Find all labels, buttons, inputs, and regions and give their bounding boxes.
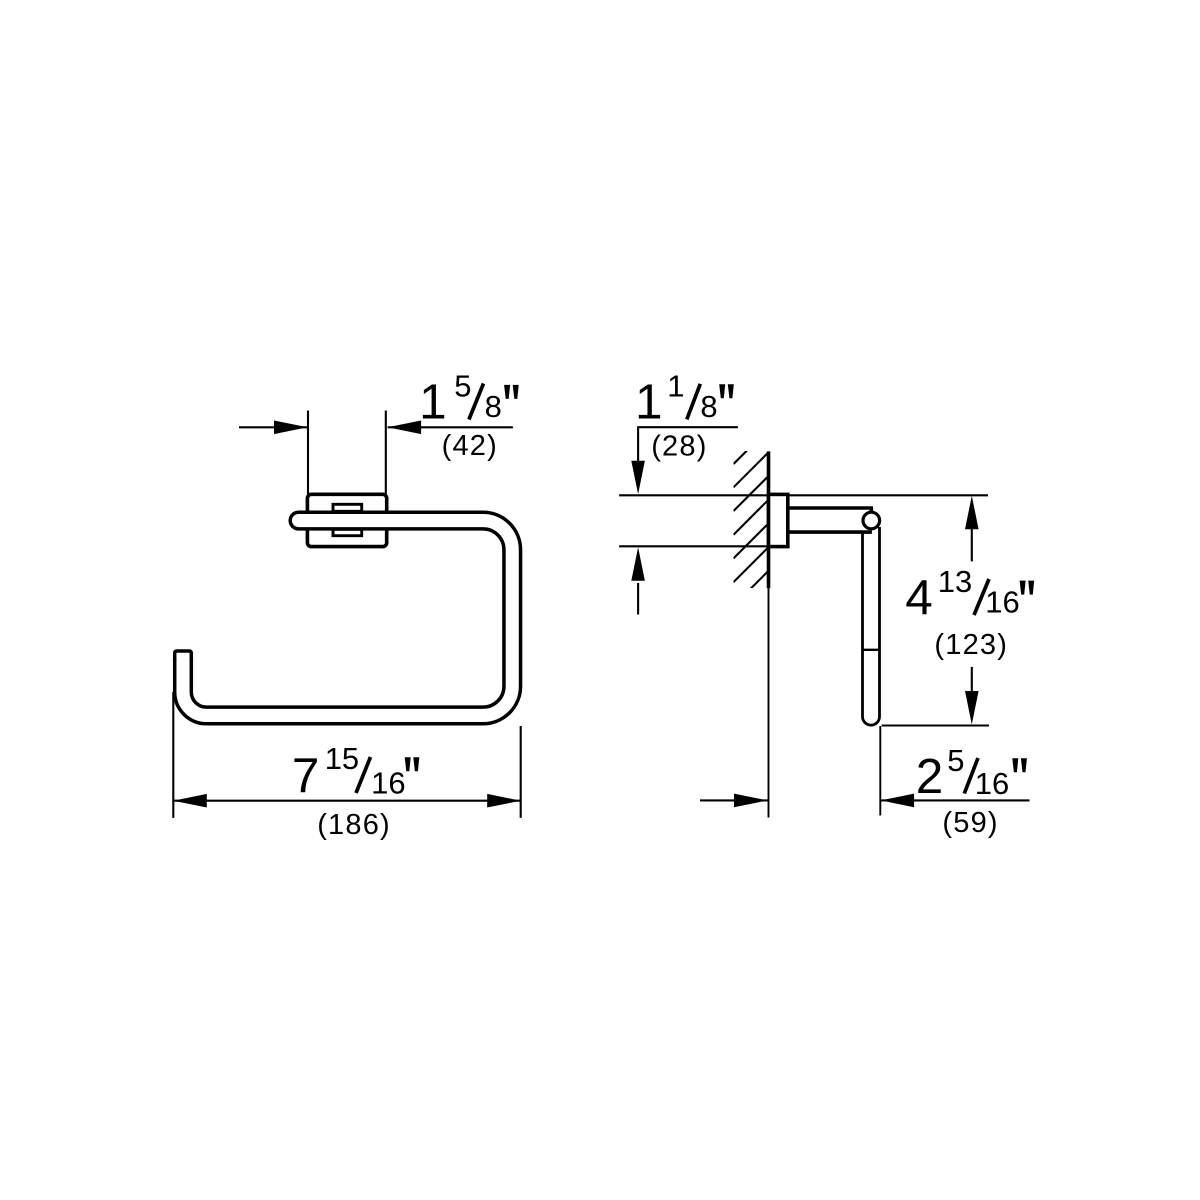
svg-text:(59): (59) [942, 807, 998, 839]
svg-text:8: 8 [485, 389, 502, 424]
svg-text:1: 1 [667, 369, 684, 404]
svg-text:7: 7 [292, 748, 320, 803]
svg-text:5: 5 [454, 369, 471, 404]
svg-text:15: 15 [325, 741, 359, 776]
svg-text:5: 5 [947, 743, 964, 778]
svg-text:16: 16 [371, 766, 405, 801]
svg-text:13: 13 [938, 564, 972, 599]
svg-text:8: 8 [700, 389, 717, 424]
svg-text:(186): (186) [317, 809, 391, 841]
svg-text:1: 1 [635, 374, 663, 429]
svg-text:2: 2 [916, 749, 944, 804]
svg-text:(28): (28) [651, 431, 707, 463]
svg-text:1: 1 [419, 374, 447, 429]
svg-text:16: 16 [985, 585, 1019, 620]
svg-text:16: 16 [975, 766, 1009, 801]
svg-text:4: 4 [905, 570, 933, 625]
svg-text:(123): (123) [934, 629, 1008, 661]
svg-text:(42): (42) [442, 430, 498, 462]
